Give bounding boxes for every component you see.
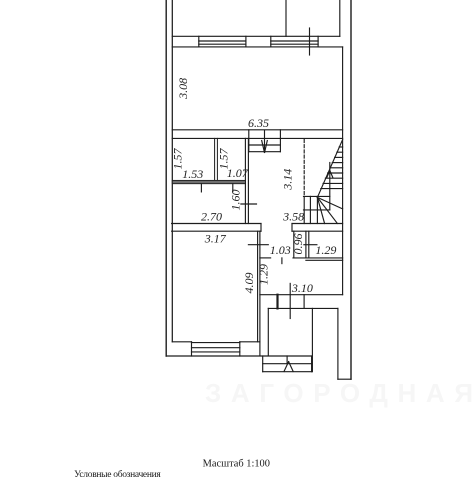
porch arrow up — [284, 362, 289, 372]
entry arrow down — [264, 131, 266, 153]
door leaf D5 corridor — [281, 258, 283, 264]
wall closet-right double — [305, 231, 307, 258]
hatched partition wall — [172, 180, 245, 183]
svg-text:1.03: 1.03 — [270, 243, 291, 257]
svg-text:3.10: 3.10 — [291, 281, 313, 295]
window W2 top wall — [271, 36, 318, 47]
dimension line 3.10 — [260, 294, 343, 296]
svg-text:0.96: 0.96 — [291, 234, 305, 255]
tick under 3.10 — [289, 283, 291, 318]
entry notch — [276, 295, 278, 309]
door leaf D6 closet — [304, 244, 317, 246]
bottom wall outer — [166, 355, 311, 357]
wall band below big room — [172, 137, 342, 139]
stair treads — [339, 146, 342, 148]
porch right wall — [311, 308, 313, 371]
svg-text:2.70: 2.70 — [201, 209, 222, 223]
svg-text:6.35: 6.35 — [248, 116, 269, 130]
svg-text:3.14: 3.14 — [281, 169, 295, 191]
svg-text:1.29: 1.29 — [315, 243, 336, 257]
stair fan treads — [317, 197, 342, 209]
wall closet-left — [293, 231, 295, 258]
svg-text:1.53: 1.53 — [182, 167, 203, 181]
svg-text:3.58: 3.58 — [282, 210, 304, 224]
wall band2 left segment — [172, 223, 261, 225]
wall top-band upper line segments — [172, 35, 199, 37]
wall inner-left — [171, 0, 173, 342]
wall top-band lower line segments — [172, 46, 199, 48]
svg-text:1.60: 1.60 — [229, 190, 243, 211]
wall top-room-right — [339, 0, 341, 36]
stair walk line with up arrowhead — [329, 163, 331, 210]
svg-text:1.07: 1.07 — [227, 166, 249, 180]
wall outer-left — [165, 0, 167, 356]
wall hall-left — [244, 138, 246, 223]
door leaf D4 room door — [248, 244, 268, 246]
porch left wall — [267, 308, 269, 355]
door leaf D1 — [200, 184, 202, 192]
window W3 bottom wall — [191, 342, 193, 356]
porch top line — [268, 307, 338, 309]
wall inner-right — [342, 47, 344, 295]
side bar inner — [337, 308, 339, 379]
svg-text:Условные обозначения: Условные обозначения — [74, 469, 161, 480]
door leaf D2 — [232, 184, 234, 192]
svg-text:4.09: 4.09 — [242, 273, 256, 294]
bottom wall inner segments — [172, 341, 191, 343]
svg-text:3.08: 3.08 — [176, 78, 190, 100]
wall outer-right — [350, 0, 352, 379]
stair dashed edge — [303, 140, 305, 196]
door leaf D3 hall door — [241, 203, 257, 205]
wall top-room-divider — [285, 0, 287, 36]
stair winder box — [304, 195, 330, 197]
svg-text:ЗАГОРОДНАЯ: ЗАГОРОДНАЯ — [205, 378, 473, 408]
stair flight diagonal — [317, 140, 342, 198]
porch steps box — [262, 356, 264, 372]
dimension line 6.35 room top — [172, 129, 342, 131]
svg-text:Масштаб 1:100: Масштаб 1:100 — [203, 459, 270, 470]
window axis mark — [309, 28, 311, 55]
wall room317-right — [257, 231, 259, 342]
window W1 top wall — [199, 36, 246, 47]
corridor bottom wall segments — [260, 257, 271, 259]
wall divider rooms 1.53/1.07 — [214, 138, 216, 180]
side bar bottom — [338, 378, 351, 380]
svg-text:1.29: 1.29 — [256, 264, 270, 285]
stair entry steps box — [248, 130, 250, 152]
svg-text:3.17: 3.17 — [204, 231, 227, 245]
wall band2 right segment — [292, 223, 343, 225]
